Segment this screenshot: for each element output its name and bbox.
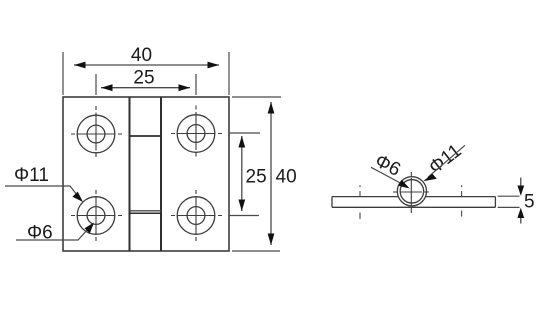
extension line top for right 25 <box>229 132 260 134</box>
svg-text:40: 40 <box>131 45 152 66</box>
extension line bottom for right 25 <box>229 215 259 217</box>
hole top-right center lines <box>171 106 222 157</box>
svg-text:40: 40 <box>276 167 297 188</box>
hole top-left outer circle <box>77 115 115 153</box>
dimension line width 25 <box>101 87 190 89</box>
extension line right for width 40 <box>228 52 230 95</box>
leader line Φ6 (front view) <box>16 226 91 240</box>
side view: hole center mark left <box>359 185 361 219</box>
side view: plate bottom edge <box>332 206 495 208</box>
knuckle divider upper <box>130 135 162 137</box>
arrowhead Φ6 leader (side view) <box>398 180 410 189</box>
arrowhead top of right 25 <box>238 136 245 148</box>
thickness 5 lower arrowhead <box>517 208 524 218</box>
side view: plate left end cap <box>331 197 333 208</box>
extension line right for width 25 <box>195 74 197 95</box>
barrel center lines (side view) <box>393 172 430 214</box>
arrowhead Φ11 leader (side view) <box>423 174 437 182</box>
side view: right leaf top edge <box>425 196 495 198</box>
arrowhead Φ11 leader (front view) <box>73 192 84 202</box>
extension line left for width 40 <box>62 52 64 95</box>
svg-text:Φ11: Φ11 <box>14 165 49 186</box>
hole bottom-left inner circle <box>87 207 105 225</box>
knuckle strip right edge <box>160 97 162 251</box>
knuckle divider lower (double line) <box>130 210 162 212</box>
barrel outer circle Φ11 (side view) <box>397 177 426 206</box>
knuckle strip left edge <box>129 97 131 251</box>
svg-text:Φ11: Φ11 <box>425 140 465 178</box>
extension line bottom for thickness 5 <box>498 206 520 208</box>
leader line Φ11 (front view) <box>5 186 81 200</box>
leader line Φ6 (side view) <box>371 167 404 185</box>
dimension line width 40 <box>74 64 219 66</box>
hole bottom-right inner circle <box>187 207 205 225</box>
arrowhead right of width 40 <box>208 62 220 69</box>
arrowhead left of width 40 <box>74 62 86 69</box>
extension line bottom for right 40 <box>232 250 280 252</box>
thickness 5 upper arrow stem <box>520 178 522 190</box>
arrowhead Φ6 leader (front view) <box>85 223 95 234</box>
svg-text:25: 25 <box>133 68 154 89</box>
extension line top for thickness 5 <box>498 195 520 197</box>
side view: left leaf top edge <box>332 196 399 198</box>
arrowhead top of right 40 <box>268 102 275 114</box>
leader line Φ11 (side view) <box>428 145 465 177</box>
svg-text:5: 5 <box>524 192 535 213</box>
dimension line right 40 <box>270 102 272 245</box>
hole bottom-right outer circle <box>177 197 215 235</box>
hole top-left center lines <box>71 106 122 157</box>
extension line top for right 40 <box>232 96 281 98</box>
hole top-right outer circle <box>177 115 215 153</box>
hole bottom-left center lines <box>71 190 122 241</box>
svg-text:25: 25 <box>246 167 267 188</box>
arrowhead bottom of right 40 <box>268 234 275 246</box>
barrel inner circle Φ6 (side view) <box>400 180 424 204</box>
arrowhead left of width 25 <box>101 84 113 91</box>
arrowhead right of width 25 <box>179 84 191 91</box>
side view: hole center mark right <box>461 185 463 216</box>
extension line left for width 25 <box>95 74 97 95</box>
hole bottom-left outer circle <box>77 197 115 235</box>
hole top-left inner circle <box>87 125 105 143</box>
hole bottom-right center lines <box>171 190 222 241</box>
thickness 5 upper arrowhead <box>517 186 524 196</box>
hole top-right inner circle <box>187 125 205 143</box>
hinge plate outline (front view) <box>63 97 229 251</box>
thickness 5 lower arrow stem <box>520 215 522 224</box>
side view: plate right end cap <box>494 197 496 208</box>
arrowhead bottom of right 25 <box>238 200 245 212</box>
dimension line right 25 <box>241 136 243 211</box>
